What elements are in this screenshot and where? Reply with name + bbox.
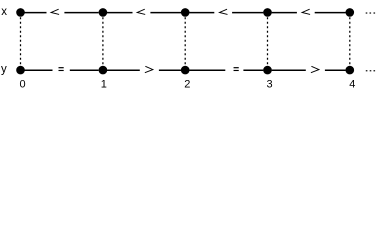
svg-text:2: 2 [184, 78, 190, 90]
wire bottom y2-y3 right [243, 69, 263, 71]
operator greater-than edge y3-y4 [311, 66, 319, 72]
node x0 [16, 8, 25, 17]
wire top x0-x1 right [64, 12, 98, 14]
svg-text:0: 0 [20, 78, 26, 90]
wire top x1-x2 left [107, 12, 133, 14]
wire top x0-x1 left [25, 12, 47, 14]
dotted link column 2 [184, 17, 186, 66]
wire top x3-x4 right [315, 12, 346, 14]
operator less-than edge x2-x3 [220, 9, 228, 14]
svg-text:x: x [1, 6, 7, 18]
node y4 [346, 66, 355, 75]
wire bottom y3-y4 right [325, 69, 346, 71]
dotted link column 0 [20, 17, 22, 66]
dotted link column 3 [267, 17, 269, 66]
node x2 [181, 8, 190, 17]
wire top x2-x3 left [189, 12, 214, 14]
ellipsis top row [366, 12, 375, 13]
node x1 [99, 8, 108, 17]
wire bottom y0-y1 right [70, 69, 99, 71]
node y0 [16, 66, 25, 75]
wire bottom y1-y2 left [107, 69, 140, 71]
svg-text:1: 1 [101, 78, 107, 90]
dotted link column 1 [102, 17, 104, 66]
wire bottom y2-y3 left [189, 69, 225, 71]
dotted link column 4 [349, 17, 351, 66]
wire top x3-x4 left [272, 12, 297, 14]
node y3 [263, 66, 272, 75]
svg-text:y: y [1, 64, 7, 76]
node x4 [346, 8, 355, 17]
node y2 [181, 66, 190, 75]
wire bottom y0-y1 left [25, 69, 53, 71]
wire bottom y1-y2 right [159, 69, 181, 71]
svg-text:3: 3 [267, 78, 273, 90]
operator greater-than edge y1-y2 [145, 66, 153, 72]
operator equals edge y2-y3 [234, 67, 239, 71]
operator less-than edge x1-x2 [137, 9, 145, 14]
wire bottom y3-y4 left [272, 69, 306, 71]
wire top x2-x3 right [232, 12, 263, 14]
operator equals edge y0-y1 [59, 67, 64, 71]
wire top x1-x2 right [150, 12, 181, 14]
svg-text:4: 4 [349, 78, 355, 90]
operator less-than edge x0-x1 [51, 9, 59, 14]
node x3 [263, 8, 272, 17]
node y1 [99, 66, 108, 75]
ellipsis bottom row [366, 70, 375, 71]
operator less-than edge x3-x4 [302, 9, 310, 14]
